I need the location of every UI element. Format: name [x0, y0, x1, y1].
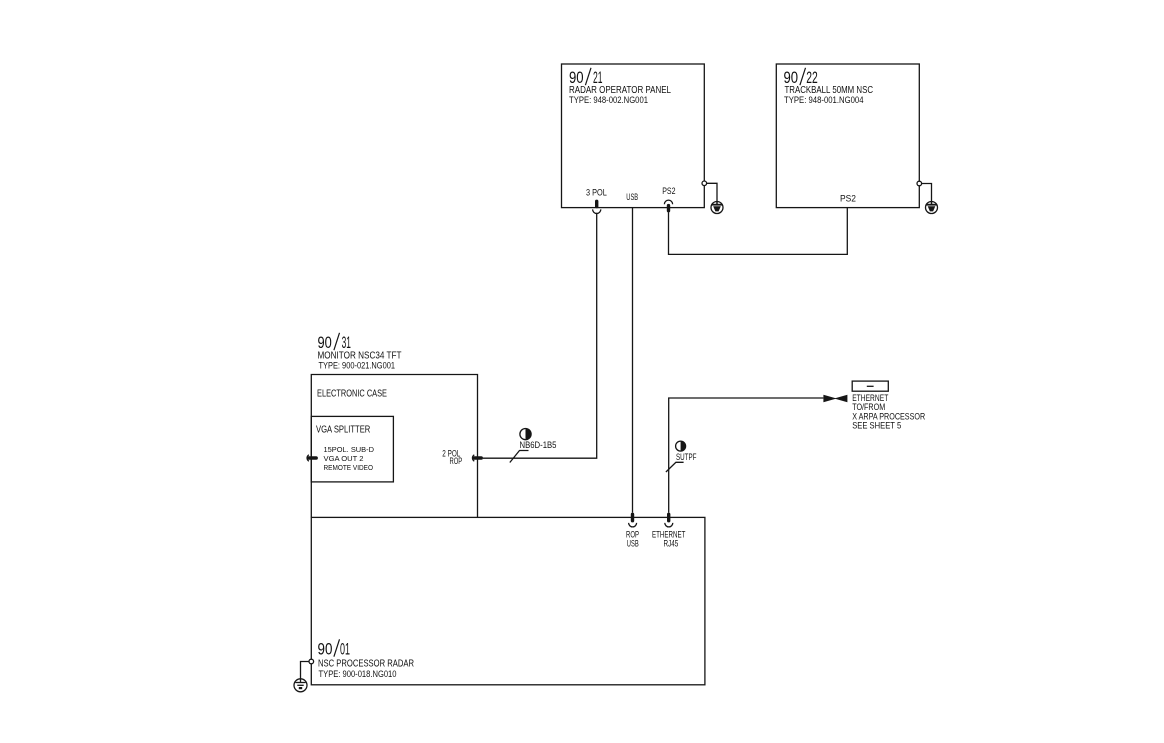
wire ETHERNET RJ45 to off-sheet arrow	[669, 398, 824, 513]
box 90/01 NSC PROCESSOR RADAR	[311, 517, 705, 684]
connector 15POL SUB-D VGA OUT (left edge of VGA splitter)	[307, 455, 318, 461]
box 90/22 TRACKBALL 50MM NSC	[776, 64, 919, 208]
svg-text:NB6D-1B5: NB6D-1B5	[520, 440, 557, 450]
wire PS2 90/21 to PS2 90/22	[669, 208, 848, 255]
note ETHERNET TO/FROM X ARPA PROCESSOR SEE SHEET 5	[852, 393, 925, 431]
svg-text:SUTPF: SUTPF	[676, 452, 697, 462]
svg-text:USB: USB	[627, 539, 639, 549]
svg-text:3 POL: 3 POL	[586, 187, 607, 197]
pin 3 POL (90/21)	[586, 187, 607, 213]
cable marker NB6D-1B5	[510, 429, 557, 463]
svg-text:PS2: PS2	[662, 186, 675, 196]
wire 90/22 to chassis ground	[922, 184, 932, 202]
revision box	[852, 381, 888, 391]
svg-text:VGA SPLITTER: VGA SPLITTER	[316, 424, 371, 436]
node on left edge of 90/01	[309, 659, 314, 664]
svg-text:RJ45: RJ45	[664, 539, 679, 549]
protective earth ground (90/01)	[294, 679, 307, 692]
box 90/31 MONITOR NSC34 TFT electronic case	[311, 333, 477, 518]
svg-text:NSC PROCESSOR RADAR: NSC PROCESSOR RADAR	[318, 658, 414, 670]
svg-text:TYPE: 900-021.NG001: TYPE: 900-021.NG001	[319, 361, 396, 371]
svg-text:ROP: ROP	[450, 456, 463, 466]
svg-text:USB: USB	[626, 192, 638, 202]
node on right edge of 90/21	[702, 181, 707, 186]
svg-text:TYPE: 948-001.NG004: TYPE: 948-001.NG004	[784, 95, 864, 105]
cable marker SUTPF	[666, 441, 697, 472]
wire 3 POL to 2 POL ROP	[483, 213, 597, 458]
box 90/21 RADAR OPERATOR PANEL	[562, 64, 705, 208]
wire 90/21 to chassis ground	[707, 183, 717, 201]
pin ROP USB (90/01)	[626, 513, 639, 549]
svg-text:PS2: PS2	[840, 193, 856, 203]
wire 90/01 to protective earth	[301, 662, 310, 680]
box VGA SPLITTER	[311, 416, 393, 482]
svg-text:TYPE: 900-018.NG010: TYPE: 900-018.NG010	[319, 669, 397, 679]
svg-text:VGA OUT 2: VGA OUT 2	[324, 454, 364, 463]
svg-text:90: 90	[318, 641, 333, 659]
off-sheet connector arrow ETHERNET	[823, 395, 847, 403]
chassis ground (90/21)	[711, 202, 723, 214]
svg-text:01: 01	[340, 641, 350, 659]
pin PS2 (90/22)	[840, 193, 856, 203]
svg-text:TYPE: 948-002.NG001: TYPE: 948-002.NG001	[569, 95, 648, 105]
svg-text:SEE SHEET 5: SEE SHEET 5	[852, 421, 901, 431]
wire USB to ROP USB	[632, 208, 634, 513]
chassis ground (90/22)	[926, 202, 938, 214]
pin USB (90/21)	[626, 192, 638, 202]
pin PS2 (90/21)	[662, 186, 675, 213]
svg-text:ELECTRONIC CASE: ELECTRONIC CASE	[317, 388, 387, 400]
pin 2 POL ROP (monitor electronic case right edge)	[442, 449, 483, 466]
svg-text:15POL. SUB-D: 15POL. SUB-D	[324, 445, 375, 454]
pin ETHERNET RJ45 (90/01)	[652, 513, 686, 549]
node on right edge of 90/22	[917, 181, 922, 186]
svg-text:REMOTE VIDEO: REMOTE VIDEO	[324, 463, 374, 472]
